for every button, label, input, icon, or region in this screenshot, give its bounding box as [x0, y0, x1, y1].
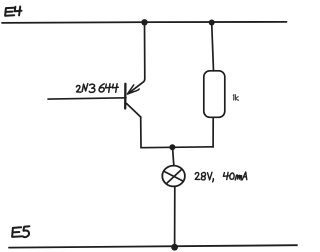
- junction dot emitter/top-rail: [141, 19, 147, 25]
- transistor Q1 collector diagonal: [126, 103, 140, 117]
- node E5 label: [12, 226, 29, 237]
- wire emitter lead from top rail: [128, 22, 145, 93]
- label 1k: [233, 95, 238, 101]
- label 2N3644: [76, 84, 118, 93]
- wire joining collector and resistor bottom: [141, 146, 213, 149]
- resistor R1 body: [204, 71, 225, 118]
- wire base lead: [48, 98, 126, 99]
- node E4 label: [5, 7, 21, 16]
- transistor Q1 base bar: [124, 84, 127, 109]
- lamp DS1 cross stroke 2: [166, 169, 182, 184]
- lamp DS1 circle: [162, 166, 185, 187]
- wire top rail E4: [2, 22, 287, 23]
- junction dot collector/resistor/lamp: [169, 144, 175, 150]
- transistor Q1 2N3644 PNP emitter arrow: [127, 85, 139, 94]
- junction dot resistor/top-rail: [209, 20, 215, 26]
- junction dot lamp/bottom-rail: [171, 244, 178, 251]
- lamp DS1 cross stroke 1: [165, 172, 184, 182]
- wire lamp bottom lead: [174, 187, 176, 247]
- wire resistor top lead: [212, 23, 214, 71]
- label 28V, 40mA: [195, 172, 247, 182]
- wire lamp top lead: [173, 147, 174, 165]
- wire collector vertical: [140, 117, 142, 148]
- wire resistor bottom lead: [212, 117, 214, 147]
- wire bottom rail E5: [9, 245, 297, 247]
